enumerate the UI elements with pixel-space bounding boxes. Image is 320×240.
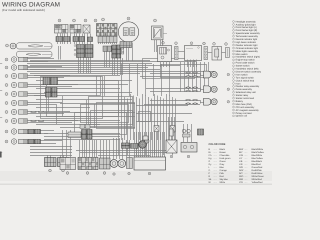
spark plug lead 2	[146, 88, 200, 90]
horn	[139, 141, 147, 149]
label circle 6 (top row)	[127, 17, 130, 20]
flasher relay box	[185, 46, 202, 61]
svg-text:R/Y: R/Y	[239, 172, 243, 175]
svg-text:.....: .....	[245, 155, 248, 157]
svg-text:Dimmer switch assembly: Dimmer switch assembly	[236, 70, 262, 73]
lamp meter light 2	[5, 120, 8, 123]
svg-text:.....: .....	[245, 149, 248, 151]
label circle 4 (top row)	[94, 19, 97, 22]
svg-text:Starter relay: Starter relay	[236, 94, 249, 97]
svg-text:......: ......	[214, 170, 218, 172]
svg-text:AC magneto assembly: AC magneto assembly	[236, 109, 260, 112]
svg-text:......: ......	[214, 176, 218, 178]
svg-text:L/B: L/B	[239, 160, 243, 163]
round connector 2	[118, 160, 126, 168]
legend list (numbered components)	[233, 20, 262, 117]
svg-text:Auxiliary (pilot) light: Auxiliary (pilot) light	[236, 23, 256, 26]
svg-text:.....: .....	[245, 176, 248, 178]
label circle (relay group 3)	[190, 42, 193, 45]
svg-text:Y/R: Y/R	[239, 181, 243, 184]
svg-text:Blue/Yellow: Blue/Yellow	[252, 157, 264, 160]
svg-text:O: O	[209, 169, 211, 172]
svg-text:W/R: W/R	[239, 178, 244, 181]
svg-text:Yellow/Red: Yellow/Red	[252, 181, 264, 184]
svg-text:Black/White: Black/White	[252, 148, 264, 151]
lamp oil level indicator	[5, 102, 8, 105]
connector block 3 (brake switch)	[83, 25, 90, 33]
svg-text:Front flasher light (R): Front flasher light (R)	[236, 29, 258, 32]
svg-text:White/Red: White/Red	[252, 178, 263, 181]
svg-text:Main switch: Main switch	[236, 53, 249, 56]
svg-text:.....: .....	[245, 179, 248, 181]
meter connector	[120, 42, 132, 48]
svg-text:......: ......	[214, 173, 218, 175]
pin strip 2	[204, 47, 208, 60]
svg-text:Green: Green	[220, 160, 227, 163]
svg-text:Black: Black	[220, 148, 226, 151]
svg-text:.....: .....	[245, 173, 248, 175]
spark plug lead 3	[150, 100, 200, 102]
svg-text:Handlebar switch (right): Handlebar switch (right)	[236, 56, 260, 59]
svg-text:Br: Br	[209, 151, 211, 154]
svg-text:B/Y: B/Y	[239, 151, 243, 154]
diode box 2	[170, 126, 175, 133]
connector cluster H (bottom mid)	[122, 143, 130, 146]
resistor unit	[212, 47, 222, 61]
svg-text:Engine stop switch: Engine stop switch	[236, 59, 256, 62]
svg-text:......: ......	[214, 161, 218, 163]
svg-text:Brown: Brown	[220, 151, 227, 154]
svg-text:Blue/White: Blue/White	[252, 154, 263, 157]
color code table	[209, 143, 265, 184]
svg-text:......: ......	[214, 152, 218, 154]
pickup coil connector	[100, 158, 111, 169]
lamp meter light 1	[5, 111, 8, 114]
lamp front flasher (L)	[5, 58, 8, 61]
connector cluster A	[77, 45, 85, 49]
edge tick marks	[0, 63, 2, 65]
svg-text:G/R: G/R	[239, 166, 243, 169]
svg-text:Neutral indicator light: Neutral indicator light	[236, 38, 258, 41]
label circle 5 (top row)	[102, 18, 105, 21]
svg-text:Starter motor lead: Starter motor lead	[236, 97, 255, 100]
connector block 2 (handlebar switch L)	[70, 25, 81, 34]
connector cluster E (left low)	[46, 88, 52, 93]
svg-text:Starter switch: Starter switch	[236, 65, 251, 68]
svg-text:Flasher indicator light: Flasher indicator light	[236, 44, 258, 47]
svg-text:Flasher relay assembly: Flasher relay assembly	[236, 85, 260, 88]
svg-text:L/R: L/R	[239, 163, 243, 166]
svg-text:.....: .....	[245, 167, 248, 169]
label circle (relay group 5)	[213, 43, 216, 46]
starter relay unit	[158, 46, 172, 62]
svg-text:.....: .....	[245, 170, 248, 172]
connector cluster C	[112, 45, 117, 49]
svg-text:COLOR CODE: COLOR CODE	[209, 143, 226, 146]
connector J	[198, 129, 204, 135]
label circle (relay group 4)	[203, 42, 206, 45]
lamp flasher pilot	[5, 75, 8, 78]
ignition coil	[181, 143, 197, 153]
svg-text:Main fuse (20A): Main fuse (20A)	[236, 103, 252, 106]
svg-text:......: ......	[214, 155, 218, 157]
lamp rear flasher (L)	[5, 130, 8, 133]
svg-text:Front flasher light (L): Front flasher light (L)	[236, 26, 257, 29]
svg-text:......: ......	[214, 182, 218, 184]
label circle 2 (top row)	[73, 19, 76, 22]
svg-text:Sidestand relay unit: Sidestand relay unit	[236, 91, 257, 94]
svg-text:Dark green: Dark green	[220, 157, 232, 160]
sidestand diode	[182, 129, 186, 133]
svg-text:Battery: Battery	[236, 100, 244, 103]
small box (neutral switch)	[127, 158, 133, 169]
ignition switch box	[152, 26, 164, 40]
svg-text:Horn switch: Horn switch	[236, 73, 249, 76]
svg-text:White: White	[220, 181, 226, 184]
svg-text:.....: .....	[245, 152, 248, 154]
connector block 1 (handlebar switch R)	[55, 25, 69, 34]
svg-text:Clutch switch lead: Clutch switch lead	[236, 79, 255, 82]
svg-text:.....: .....	[245, 161, 248, 163]
svg-text:Speedometer assembly: Speedometer assembly	[236, 32, 261, 35]
connector cluster K (mid low)	[68, 132, 81, 138]
connector block 4 (main switch block)	[97, 24, 118, 37]
svg-text:Black/Yellow: Black/Yellow	[252, 151, 265, 154]
svg-text:......: ......	[214, 158, 218, 160]
headlight	[6, 44, 9, 47]
svg-text:Meter lights assembly: Meter lights assembly	[236, 50, 259, 53]
connector pair under block 2	[73, 37, 79, 42]
battery	[134, 157, 166, 170]
diode box 1	[154, 126, 159, 132]
svg-text:......: ......	[214, 164, 218, 166]
label circle (relay group 1)	[162, 42, 165, 45]
svg-text:Oil level indicator light: Oil level indicator light	[236, 47, 259, 50]
routing loop	[139, 112, 151, 122]
flasher relay small box	[143, 136, 148, 140]
svg-text:Green/Red: Green/Red	[252, 166, 263, 169]
svg-text:Ignition coil: Ignition coil	[236, 115, 248, 118]
lamp front flasher (R)	[5, 66, 8, 69]
scan shading band	[0, 171, 272, 181]
connector under block 3	[88, 37, 93, 42]
label circle 3 (top row)	[84, 19, 87, 22]
meter assembly (speedometer/tachometer)	[118, 22, 138, 42]
svg-text:.....: .....	[245, 164, 248, 166]
relay group wiring	[160, 62, 162, 68]
svg-text:L/Y: L/Y	[239, 157, 243, 160]
rear brake switch connector	[58, 158, 70, 167]
lamp neutral indicator	[5, 93, 8, 96]
lamp high beam indicator	[5, 84, 8, 87]
auxiliary light	[17, 51, 53, 57]
svg-text:High beam indicator: High beam indicator	[236, 41, 257, 44]
sidestand switch connector	[45, 158, 57, 167]
svg-text:CDI unit assembly: CDI unit assembly	[236, 106, 255, 109]
svg-text:Front brake switch: Front brake switch	[236, 62, 255, 65]
svg-text:Red/White: Red/White	[252, 169, 263, 172]
svg-text:Horn: Horn	[236, 82, 242, 85]
svg-text:White/Green: White/Green	[252, 175, 265, 178]
AC magneto connector block	[78, 158, 98, 170]
svg-text:Blue/Red: Blue/Red	[252, 163, 262, 166]
svg-text:Handlebar switch (left): Handlebar switch (left)	[236, 68, 259, 71]
round connector 1	[110, 160, 118, 168]
svg-text:(For model with sidestand swit: (For model with sidestand switch)	[2, 8, 45, 12]
svg-text:W/G: W/G	[239, 175, 244, 178]
svg-text:Diode assembly: Diode assembly	[236, 88, 253, 91]
connector cluster B	[103, 46, 107, 52]
svg-text:Red/Yellow: Red/Yellow	[252, 172, 263, 175]
svg-text:Turn signal switch: Turn signal switch	[236, 76, 255, 79]
diode block	[226, 48, 230, 58]
svg-text:Sky blue: Sky blue	[220, 178, 229, 181]
label circle (relay group 6)	[225, 43, 228, 46]
svg-text:Tachometer assembly: Tachometer assembly	[236, 35, 259, 38]
connector cluster D (left mid)	[43, 78, 50, 85]
connector under block 4	[98, 36, 117, 42]
CDI unit connector	[60, 158, 76, 170]
svg-text:......: ......	[214, 167, 218, 169]
svg-text:.....: .....	[245, 182, 248, 184]
label circle (relay group 2)	[175, 42, 178, 45]
wire harness mesh	[27, 34, 214, 161]
svg-text:Blue: Blue	[220, 166, 225, 169]
svg-text:G: G	[209, 160, 211, 163]
svg-text:Blue/Black: Blue/Black	[252, 160, 263, 163]
spark plug lead 1	[150, 73, 200, 75]
svg-text:Pickup coil lead: Pickup coil lead	[236, 112, 253, 115]
svg-text:Orange: Orange	[220, 169, 228, 172]
connector pair under block 1	[56, 37, 63, 42]
rectifier/regulator	[166, 140, 177, 153]
svg-text:......: ......	[214, 149, 218, 151]
label circle 7 (top row)	[154, 19, 157, 22]
label circle 1 (top row)	[58, 19, 61, 22]
fuse holder	[170, 129, 174, 136]
svg-text:......: ......	[214, 179, 218, 181]
pin strip 1	[175, 47, 179, 60]
svg-text:Chocolate: Chocolate	[220, 154, 231, 157]
svg-text:.....: .....	[245, 158, 248, 160]
lamp rear flasher (R)	[5, 140, 8, 143]
svg-text:Headlight assembly: Headlight assembly	[236, 20, 257, 23]
